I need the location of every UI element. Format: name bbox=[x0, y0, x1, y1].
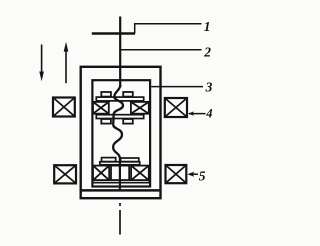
arrowhead leader 5 bbox=[187, 172, 194, 177]
pedestal top-left tab bbox=[102, 158, 116, 162]
wire pull-rod upper shaft bbox=[119, 17, 121, 88]
upper holder top-left tab bbox=[101, 92, 111, 97]
arrowhead leader 4 bbox=[188, 111, 194, 115]
svg-text:4: 4 bbox=[205, 107, 212, 121]
upper holder bottom bar bbox=[96, 115, 143, 119]
pedestal base bar bbox=[93, 180, 149, 183]
upper holder top bar bbox=[96, 97, 143, 101]
lower inner coil left bbox=[93, 166, 109, 181]
wire leader 2 bbox=[121, 49, 202, 51]
svg-text:5: 5 bbox=[199, 168, 206, 183]
field coil upper-right bbox=[165, 98, 187, 117]
upper holder top-right tab bbox=[123, 92, 133, 97]
svg-text:1: 1 bbox=[204, 19, 211, 34]
field coil lower-left bbox=[54, 165, 76, 183]
crystal rod molten wavy section bbox=[113, 85, 123, 158]
wire leader 4 bbox=[189, 113, 206, 115]
pedestal top-right tab bbox=[121, 158, 139, 162]
motion arrow up (right) bbox=[64, 42, 69, 83]
wire leader 3 bbox=[151, 86, 203, 88]
base plate bbox=[81, 189, 160, 192]
svg-text:2: 2 bbox=[203, 45, 211, 60]
lower support shaft bbox=[119, 157, 121, 191]
svg-text:3: 3 bbox=[205, 79, 213, 94]
centreline dash-dot below vessel bbox=[119, 203, 121, 235]
field coil lower-right bbox=[166, 165, 187, 183]
field coil upper-left bbox=[53, 98, 75, 117]
upper inner coil right bbox=[131, 102, 149, 114]
pedestal centre block bbox=[111, 166, 129, 181]
crossbar on upper shaft bbox=[92, 32, 135, 34]
motion arrow down (left) bbox=[39, 45, 44, 82]
upper inner coil left bbox=[93, 102, 109, 114]
lower inner coil right bbox=[131, 166, 149, 181]
wire leader 1 bbox=[135, 24, 202, 34]
pedestal upper bar bbox=[100, 162, 140, 165]
paper background bbox=[0, 0, 240, 246]
upper holder bottom-right tab bbox=[123, 119, 133, 124]
wire leader 5 bbox=[190, 173, 199, 175]
inner vessel wall bbox=[92, 80, 150, 186]
outer vessel wall bbox=[81, 67, 161, 198]
upper holder bottom-left tab bbox=[101, 119, 111, 124]
